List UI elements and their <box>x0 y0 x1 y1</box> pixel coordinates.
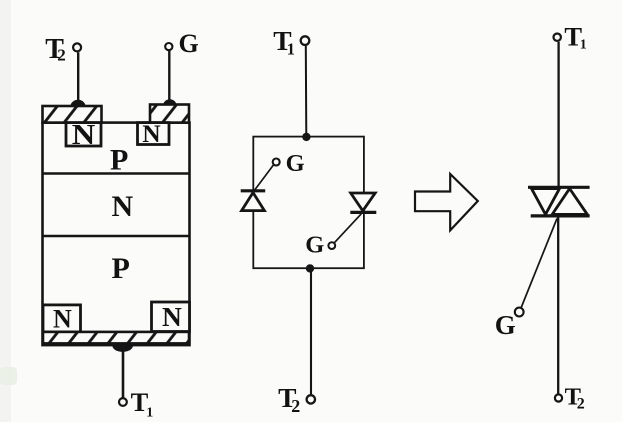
svg-text:2: 2 <box>291 396 300 416</box>
terminal T2 circle (middle) <box>307 395 315 403</box>
svg-text:G: G <box>495 310 516 340</box>
wire T1 to box (middle) <box>305 46 308 137</box>
svg-text:G: G <box>305 232 324 259</box>
svg-text:2: 2 <box>577 396 585 413</box>
junction line N/P <box>43 235 190 237</box>
junction dot top <box>302 133 310 141</box>
gate wire G lower <box>334 214 361 243</box>
wire box to T2 (middle) <box>310 268 312 394</box>
triac bottom bar <box>531 214 590 217</box>
wire G to top-right contact <box>168 51 170 106</box>
terminal T1 circle (middle) <box>301 36 310 45</box>
triac left triangle <box>532 189 560 215</box>
terminal T2 circle <box>73 43 81 51</box>
triac right triangle <box>552 189 587 215</box>
equivalent circuit box <box>253 137 364 269</box>
svg-text:G: G <box>179 29 199 58</box>
thyristor V1 cathode bar <box>241 189 266 192</box>
N+ region top-left <box>66 120 101 151</box>
svg-text:N: N <box>112 190 134 223</box>
svg-text:G: G <box>286 150 305 177</box>
wire T1 to triac <box>557 42 559 187</box>
svg-text:N: N <box>142 119 161 148</box>
svg-text:P: P <box>112 252 130 285</box>
svg-text:1: 1 <box>580 38 587 53</box>
svg-text:1: 1 <box>287 40 295 59</box>
N+ region top-right <box>138 119 170 148</box>
svg-text:P: P <box>110 144 128 177</box>
thyristor V2 cathode bar <box>350 211 376 214</box>
gate terminal G circle lower <box>328 242 335 249</box>
solder blob at G contact <box>163 99 176 105</box>
svg-text:N: N <box>162 301 182 332</box>
solder blob at T2 contact <box>70 100 85 107</box>
gate terminal G circle upper <box>273 159 280 166</box>
metal contact bottom hatched <box>43 332 189 344</box>
thyristor V1 triangle <box>242 193 265 211</box>
wire T1 from bottom contact <box>122 352 125 398</box>
terminal T1 circle <box>119 398 127 406</box>
metal contact top-left hatched <box>43 106 102 123</box>
terminal G circle <box>165 43 172 50</box>
block arrow <box>415 174 478 230</box>
solder blob at T1 contact <box>112 346 133 352</box>
triac top bar <box>528 186 590 189</box>
junction line P/N <box>43 172 190 174</box>
junction dot bottom <box>306 264 314 272</box>
gate terminal G circle (right) <box>515 308 524 317</box>
gate wire G upper <box>254 165 273 191</box>
N+ region bottom-left <box>43 305 81 334</box>
svg-text:N: N <box>53 305 72 334</box>
terminal T1 circle (right) <box>554 34 561 41</box>
wire triac to T2 <box>557 218 559 394</box>
svg-text:N: N <box>72 120 96 151</box>
thyristor V2 triangle <box>351 193 376 211</box>
svg-text:1: 1 <box>146 406 153 421</box>
terminal T2 circle (right) <box>555 394 562 401</box>
metal contact top-right hatched <box>150 105 189 123</box>
N+ region bottom-right <box>152 301 190 332</box>
gate wire (right) <box>521 219 557 309</box>
wire T2 to top-left contact <box>77 52 79 107</box>
device body outline <box>43 123 190 346</box>
svg-text:2: 2 <box>57 46 66 65</box>
